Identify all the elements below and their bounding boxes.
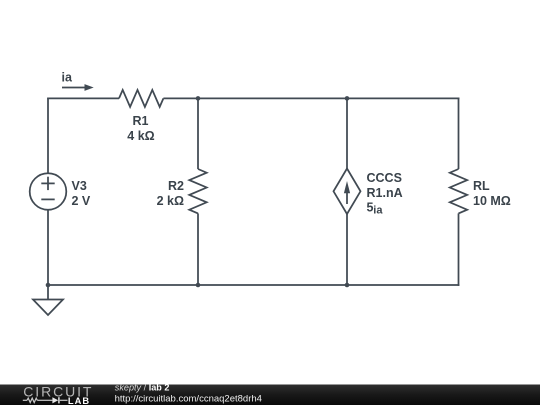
wire bottom rail middle segment xyxy=(198,284,347,286)
resistor RL xyxy=(450,169,467,213)
voltage source V3 circle xyxy=(30,173,67,210)
logo diode triangle xyxy=(52,397,58,403)
current source CCCS diamond xyxy=(334,169,361,215)
ground xyxy=(33,300,63,316)
ground stub wire xyxy=(47,285,49,300)
wire node B to top-right corner xyxy=(347,97,459,99)
wire bottom rail left segment xyxy=(48,284,198,286)
svg-text:4 kΩ: 4 kΩ xyxy=(127,129,154,143)
wire V3 bottom lead xyxy=(47,210,49,285)
V3 plus sign xyxy=(41,182,54,184)
svg-text:RL: RL xyxy=(473,179,490,193)
wire bottom rail right segment xyxy=(347,284,459,286)
node B junction dot (top) xyxy=(345,96,350,101)
svg-text:R2: R2 xyxy=(168,179,184,193)
ground node junction dot xyxy=(46,283,51,288)
svg-text:R1.nA: R1.nA xyxy=(367,186,403,200)
resistor R2 xyxy=(189,169,206,213)
svg-text:ia: ia xyxy=(373,205,383,217)
wire CCCS bottom lead xyxy=(346,214,348,285)
wire R1 to node A xyxy=(163,97,198,99)
V3 minus sign xyxy=(41,198,54,200)
svg-text:skepty / lab 2: skepty / lab 2 xyxy=(115,383,170,393)
svg-text:2 kΩ: 2 kΩ xyxy=(157,194,184,208)
bottom bar background xyxy=(0,385,540,405)
svg-text:http://circuitlab.com/ccnaq2et: http://circuitlab.com/ccnaq2et8drh4 xyxy=(115,393,262,404)
wire R2 top lead xyxy=(197,98,199,169)
wire RL bottom lead xyxy=(458,213,460,286)
svg-text:10 MΩ: 10 MΩ xyxy=(473,194,511,208)
svg-text:ia: ia xyxy=(62,70,73,84)
svg-text:R1: R1 xyxy=(133,114,149,128)
logo resistor-diode glyph xyxy=(23,397,68,403)
wire CCCS top lead xyxy=(346,98,348,168)
wire RL top lead xyxy=(458,98,460,170)
ia current arrowhead xyxy=(85,84,94,91)
bottom rail junction dot at CCCS xyxy=(345,283,350,288)
node A junction dot (top) xyxy=(196,96,201,101)
svg-text:V3: V3 xyxy=(72,179,87,193)
wire V3 top lead xyxy=(47,98,49,173)
ia current arrow shaft xyxy=(62,87,85,89)
wire R2 bottom lead xyxy=(197,213,199,285)
svg-text:LAB: LAB xyxy=(68,396,90,405)
wire node A to node B xyxy=(198,97,347,99)
resistor R1 xyxy=(119,90,163,107)
CCCS arrowhead xyxy=(344,181,350,193)
wire top rail left segment xyxy=(47,97,119,99)
svg-text:2 V: 2 V xyxy=(72,194,91,208)
svg-text:CCCS: CCCS xyxy=(367,171,402,185)
bottom rail junction dot at R2 xyxy=(196,283,201,288)
CCCS arrow shaft xyxy=(346,187,348,204)
